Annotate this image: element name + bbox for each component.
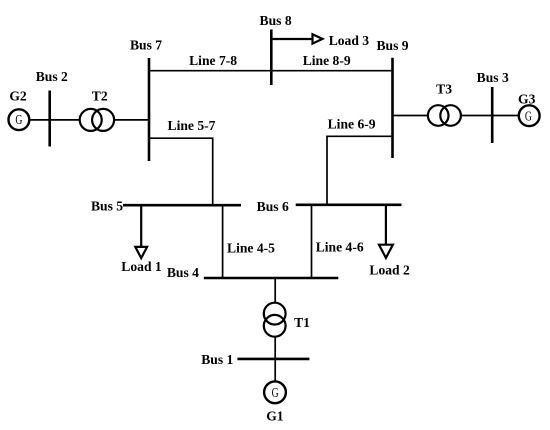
svg-text:T2: T2 — [92, 88, 108, 103]
transformer T3 — [428, 105, 461, 126]
svg-text:Load 1: Load 1 — [121, 259, 162, 274]
svg-text:T1: T1 — [294, 315, 310, 330]
svg-text:G3: G3 — [518, 92, 536, 107]
transformer T1 — [264, 303, 286, 337]
wire Bus 3 to G3 — [492, 115, 518, 117]
svg-text:G2: G2 — [9, 89, 27, 104]
wire Line 8-9 — [271, 70, 392, 72]
bus bar Bus 6 — [296, 204, 402, 207]
svg-text:G1: G1 — [266, 409, 284, 424]
load arrow Load 3 — [271, 34, 322, 43]
wire T2 to Bus 7 — [114, 119, 149, 121]
load arrow Load 2 — [379, 205, 393, 258]
svg-text:Line 4-6: Line 4-6 — [316, 240, 364, 255]
wire Line 4-5 — [222, 205, 224, 278]
generator G2 — [9, 109, 30, 130]
svg-text:Bus 3: Bus 3 — [477, 70, 509, 85]
wire T3 to Bus 3 — [462, 115, 493, 117]
svg-text:G: G — [15, 113, 22, 128]
bus bar Bus 2 — [48, 91, 51, 147]
svg-text:T3: T3 — [436, 82, 452, 97]
generator G3 — [519, 105, 540, 126]
svg-text:Bus 1: Bus 1 — [201, 352, 233, 367]
svg-text:Line 5-7: Line 5-7 — [168, 118, 216, 133]
wire Bus 4 to T1 — [274, 278, 276, 304]
wire Line 6-9 — [327, 136, 393, 205]
svg-text:Bus 6: Bus 6 — [257, 199, 289, 214]
load arrow Load 1 — [135, 205, 147, 258]
bus bar Bus 1 — [237, 358, 309, 361]
bus bar Bus 9 — [391, 58, 394, 158]
wire Line 4-6 — [311, 205, 313, 278]
svg-text:Bus 2: Bus 2 — [36, 69, 68, 84]
svg-text:Line 4-5: Line 4-5 — [227, 240, 275, 255]
generator G1 — [264, 381, 286, 403]
svg-text:Load 2: Load 2 — [369, 263, 410, 278]
wire Line 7-8 — [149, 70, 271, 72]
svg-text:Load 3: Load 3 — [329, 33, 370, 48]
transformer T2 — [80, 109, 114, 131]
svg-text:Line 8-9: Line 8-9 — [303, 53, 351, 68]
svg-text:Bus 8: Bus 8 — [260, 13, 292, 28]
wire Bus 1 to G1 — [274, 359, 276, 382]
bus bar Bus 5 — [123, 204, 241, 207]
bus bar Bus 7 — [148, 58, 151, 161]
svg-text:G: G — [272, 386, 279, 401]
wire G2 to T2 — [30, 119, 80, 121]
bus bar Bus 8 — [270, 30, 273, 86]
svg-text:Bus 4: Bus 4 — [167, 265, 199, 280]
bus bar Bus 4 — [204, 277, 338, 280]
svg-text:Bus 7: Bus 7 — [130, 37, 162, 52]
wire Line 5-7 — [149, 138, 213, 205]
svg-text:Bus 5: Bus 5 — [91, 199, 123, 214]
svg-text:Bus 9: Bus 9 — [376, 38, 408, 53]
svg-text:G: G — [525, 109, 532, 124]
svg-text:Line 6-9: Line 6-9 — [328, 117, 376, 132]
bus bar Bus 3 — [491, 87, 494, 143]
svg-text:Line 7-8: Line 7-8 — [189, 53, 237, 68]
wire T1 to Bus 1 — [274, 336, 276, 359]
wire Bus 9 to T3 — [393, 115, 429, 117]
